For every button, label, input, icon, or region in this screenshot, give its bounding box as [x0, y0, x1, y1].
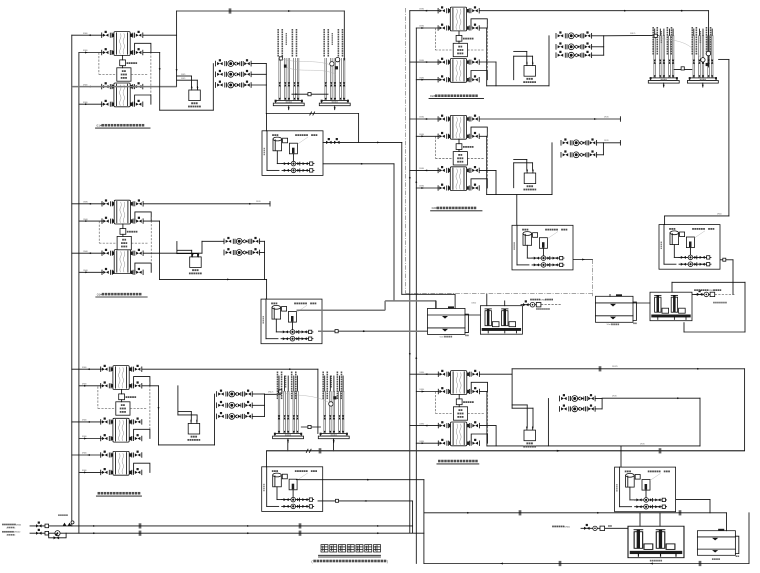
R2 temp sensor link to HX [458, 139, 460, 144]
L3 controller dashed signal lines [98, 408, 116, 410]
CP1 left riser labels [277, 29, 297, 57]
section divider dash-dot vertical [405, 8, 407, 294]
section divider dash-dot horizontal [406, 293, 593, 295]
city inlet caption upper [2, 524, 22, 527]
R1 inlet valve V2 [438, 24, 450, 30]
L3 pump P3 row [217, 412, 253, 419]
R3 outlet fitting F3 [467, 422, 479, 428]
svg-text:DN80: DN80 [83, 270, 88, 272]
TB2 lower outlet long run to tank A [318, 330, 428, 332]
living water tank C [697, 529, 739, 557]
R3 vacuum degasser pressurization tank [523, 427, 536, 448]
svg-text:DN80: DN80 [83, 219, 88, 221]
collector CP3 left (distributor) with risers [648, 35, 679, 87]
R1 outlet bypass bridge 1 [471, 19, 487, 28]
CP1 inter-bar balance line with meter [292, 93, 328, 95]
R1 vacuum degasser pressurization tank [523, 62, 536, 83]
R3 inlet valve V1 [438, 370, 450, 376]
L3 wire row1 from bus [72, 368, 102, 370]
R2 wire row4 from bus [416, 187, 438, 189]
svg-text:DN80: DN80 [419, 8, 424, 10]
wire drop to collector CP1 right [343, 11, 345, 60]
bottom bus lower [424, 563, 749, 565]
L2 outlet fitting F1 [131, 200, 143, 206]
R1 drop into CP3 right collector [708, 11, 710, 67]
R1 pump discharge to CP3 left risers [604, 34, 659, 36]
R2 drop to TB3 [516, 195, 518, 226]
CP3 right riser pressure reducing valves [701, 58, 705, 62]
collector CP1 right (collector) with risers [319, 58, 350, 110]
L2 inter-HX dashed link [150, 217, 152, 263]
bottom supply fitting run [581, 527, 628, 529]
L1 outlet bypass bridge 2 [135, 95, 151, 104]
R3 wire row2 drop [480, 391, 487, 393]
R3 pump discharge run right [602, 397, 700, 399]
L1 controller dashed signal lines [99, 74, 117, 76]
R2 pump P1 row [561, 139, 597, 146]
svg-text:DN80: DN80 [420, 441, 425, 443]
flow arrows on right buses [409, 353, 411, 356]
R2 controller dashed signal lines [435, 157, 453, 159]
L1 pump discharge header [265, 64, 267, 85]
L2 wire row2 from bus [79, 220, 103, 222]
TB5 lower outlet run [318, 500, 413, 502]
L2 inlet valve V4 [102, 268, 114, 274]
drawing subtitle note [312, 559, 388, 563]
TB5 feed from return header [266, 451, 268, 467]
inlet valve set upper [36, 522, 42, 528]
L1 plate heat exchanger HX2 [114, 83, 130, 107]
R3 controller dashed signal lines [436, 413, 454, 415]
L1 outlet fitting F2 [131, 48, 143, 54]
svg-text:DN80: DN80 [83, 50, 88, 52]
L3 wire row4 from bus [79, 438, 101, 440]
R1 outlet fitting F2 [467, 24, 479, 30]
R1 pump P1 row [556, 32, 592, 39]
R2 outlet bypass bridge 2 [471, 179, 487, 188]
L1 pump P3 row [216, 81, 252, 88]
city water inlet text bottom [552, 526, 571, 529]
L3 wire row6 from bus [79, 471, 101, 473]
collector CP3 right (collector) with risers [687, 35, 718, 87]
L3 inlet valve V4 [101, 434, 113, 440]
skid A suction from tank A [465, 314, 480, 316]
CP2 right bar drain to return header [333, 439, 335, 451]
R2 wire row1 extension with end marker [480, 118, 621, 120]
svg-text:DN80: DN80 [419, 134, 424, 136]
L2 pump P1 row [224, 237, 260, 244]
R2 pump P2 row [561, 151, 597, 158]
R3 wire row3 drop [480, 425, 496, 427]
CP2 left riser instrument square [279, 390, 282, 393]
L2 outlet bypass bridge 2 [135, 263, 151, 272]
svg-text:): ) [387, 559, 388, 563]
inlet water meter [55, 531, 60, 536]
R2 vacuum degasser pressurization tank [523, 169, 536, 190]
tank C feed from bus [726, 513, 728, 531]
L3 temp sensor link to HX [121, 389, 123, 394]
R3 outlet bypass bridge 2 [471, 434, 487, 443]
L1 inlet valve V3 [102, 83, 114, 89]
svg-text:DN80: DN80 [419, 186, 424, 188]
L3 outlet bypass bridge 2 [134, 429, 150, 438]
makeup water unit TB2 box [261, 299, 322, 344]
CP3 right bar tap to right main drop [719, 58, 729, 60]
R2 wire row3 drop [480, 169, 496, 171]
svg-text:DN65: DN65 [16, 524, 22, 526]
R1 pump discharge header [603, 36, 605, 55]
L3 expansion tank piping [178, 411, 191, 413]
L3 inlet valve V2 [101, 382, 113, 388]
R3 plate heat exchanger HX1 [451, 371, 467, 395]
R3 wire row3 from bus [410, 425, 439, 427]
R1 plate heat exchanger HX2 [450, 59, 466, 83]
R1 wire row3 from bus [410, 61, 439, 63]
L3 wire row5 from bus [72, 454, 102, 456]
R2 pump suction run [487, 194, 552, 196]
collector CP2 right (collector) with risers [318, 391, 349, 443]
R1 energy metering controller [453, 35, 473, 56]
R1 wire row2 from bus [416, 27, 438, 29]
R3 outlet fitting F1 [467, 370, 479, 376]
city water supply to tank A [521, 301, 561, 307]
TB2 outlet to tank A feed [297, 309, 386, 311]
left return bus 2 [78, 53, 80, 534]
svg-text:DN80: DN80 [419, 117, 424, 119]
CP2 instrument leader curve [282, 392, 331, 403]
R3 outlet fitting F2 [467, 387, 479, 393]
bottom right riser [748, 513, 750, 564]
L3 pump P2 row [217, 401, 253, 408]
TB5 lower drop [412, 501, 414, 533]
R1 wire row1 long run to CP3 [480, 10, 709, 12]
L2 outlet fitting F4 [131, 268, 143, 274]
drawing title [321, 545, 328, 552]
R1 wire row3 drop [480, 61, 496, 63]
collector CP2 left (distributor) with risers [273, 391, 304, 443]
L2 wire row3 to pumps [144, 252, 203, 254]
R3 expansion tank piping [512, 404, 527, 406]
L1 wire row4 from bus [79, 103, 102, 105]
R3 temp sensor link to HX [458, 394, 460, 399]
svg-text:DN100: DN100 [14, 532, 21, 534]
R2 wire row1 from bus [410, 118, 439, 120]
wire top distribution header [177, 10, 345, 12]
R2 expansion tank piping [514, 159, 527, 161]
makeup water unit TB4 box [659, 225, 720, 270]
circulation return to skid B base [684, 331, 745, 333]
svg-text:01#: 01# [97, 124, 102, 128]
L2 expansion tank piping [177, 249, 192, 251]
L1 wire row2 loop down [143, 52, 160, 54]
svg-text:DN50: DN50 [565, 526, 571, 528]
right main drop wire [728, 59, 730, 216]
right return bus 2 [415, 28, 417, 564]
L2 energy metering controller [117, 229, 137, 250]
R2 plate heat exchanger HX1 [450, 115, 466, 139]
TB3 outlet to divider drop [574, 259, 593, 261]
L2 outlet fitting F2 [131, 217, 143, 223]
R1 expansion tank piping [514, 50, 527, 52]
L3 pump suction run [159, 444, 215, 446]
svg-text:DN80: DN80 [83, 33, 88, 35]
TB4 outlet right with meter [721, 259, 734, 261]
svg-text:02#: 02# [432, 206, 437, 210]
R2 pump discharge header [602, 143, 604, 155]
R3 energy metering controller [453, 399, 473, 420]
L3 drop into CP2 right collector [317, 369, 319, 433]
L2 wire row1 from bus [72, 203, 103, 205]
living water tank A [428, 307, 469, 337]
svg-text:DN80: DN80 [83, 102, 88, 104]
CP2 right riser pressure reducing valve [329, 402, 333, 406]
L2 bottom run to TB2 [160, 278, 267, 280]
R2 inlet valve V2 [438, 132, 450, 138]
L3 inlet valve V1 [101, 365, 113, 371]
TB1 outlet lower [323, 163, 394, 165]
makeup water unit TB5 box [262, 467, 323, 512]
L1 wire to CP1 zone [266, 113, 358, 115]
L2 wire row1 extension with end marker [144, 203, 271, 205]
R1 outlet fitting F3 [467, 58, 479, 64]
svg-text:DN80: DN80 [82, 470, 87, 472]
L3 outlet bypass bridge 1 [134, 377, 150, 386]
tank A top feed header [385, 300, 436, 302]
skid B suction from tank B [633, 302, 650, 304]
R1 inlet valve V3 [438, 58, 450, 64]
R1 pump P3 row [556, 51, 592, 58]
L3 inlet valve V6 [101, 468, 113, 474]
R1 wire row1 from bus [410, 10, 439, 12]
pump skid B box [650, 292, 692, 321]
svg-text:DN125: DN125 [612, 366, 618, 368]
L1 pump P1 row [216, 60, 252, 67]
L1 outlet fitting F1 [131, 31, 143, 37]
L1 pump P2 row [216, 70, 252, 77]
CP1 right riser pressure reducing valves [330, 62, 334, 66]
L2 inlet valve V2 [102, 217, 114, 223]
CP1 left riser instrument square [279, 57, 282, 60]
L3 inter-HX dashed link [149, 382, 151, 430]
R3 pump P2 row [560, 405, 596, 412]
R3 top long run to right main [512, 368, 745, 370]
makeup water unit TB6 box [615, 467, 676, 512]
TB6 outlet to bottom right riser [676, 498, 710, 500]
R1 wire row2 drop [480, 27, 487, 29]
R1 inter-HX dashed link [486, 24, 488, 71]
L3 outlet fitting F1 [130, 365, 142, 371]
right drop to circulation return [744, 282, 746, 332]
L1 expansion tank piping [177, 75, 192, 77]
L3 inlet valve V5 [101, 451, 113, 457]
L2 wire row4 from bus [79, 271, 103, 273]
L1 riser to top header [176, 11, 178, 87]
L1 inter-HX dashed link [150, 49, 152, 96]
L1 wire row2 from bus [79, 52, 102, 54]
tank A feed stub right [454, 294, 456, 308]
svg-text:DN70: DN70 [612, 396, 617, 398]
CP3 right riser labels [692, 27, 712, 55]
L1 wire row1 extension to riser [143, 34, 176, 36]
L3 vacuum degasser pressurization tank [187, 420, 200, 441]
R1 temp sensor link to HX [458, 31, 460, 36]
left supply bus 1 [71, 35, 73, 526]
R2 inlet valve V3 [438, 166, 450, 172]
svg-text:DN50: DN50 [472, 303, 477, 305]
svg-text:DN70: DN70 [604, 140, 609, 142]
R1 caption [430, 94, 478, 98]
tank A second feed from TB2 header [435, 301, 437, 309]
L2 inlet valve V3 [102, 249, 114, 255]
R2 wire row3 from bus [410, 169, 439, 171]
L3 outlet fitting F3 [130, 418, 142, 424]
L3 outlet bypass bridge 3 [134, 463, 150, 472]
svg-text:DN80: DN80 [419, 26, 424, 28]
L3 wire row3 from bus [72, 421, 102, 423]
R3 pump suction drop [547, 399, 549, 446]
makeup water unit TB1 box [262, 131, 323, 176]
pump skid A box [480, 306, 522, 335]
CP3 riser pipe extensions [654, 29, 656, 35]
TB4 outlet drop [732, 260, 734, 295]
living water tank B [596, 295, 637, 325]
L1 caption [97, 124, 145, 128]
L2 plate heat exchanger HX1 [114, 200, 130, 224]
supply B connector to skid B [692, 293, 697, 295]
svg-text:DN25: DN25 [181, 78, 185, 80]
svg-text:DN25: DN25 [181, 74, 185, 76]
inlet bypass loop [49, 533, 66, 538]
R1 controller dashed signal lines [435, 49, 453, 51]
R3 drop into TB6 [620, 446, 622, 467]
R3 bottom run [487, 445, 700, 447]
svg-text:DN50: DN50 [717, 213, 722, 215]
R2 energy metering controller [453, 144, 473, 165]
L2 vacuum degasser pressurization tank [189, 253, 202, 274]
svg-text:DN70: DN70 [640, 443, 645, 445]
svg-text:DN80: DN80 [82, 384, 87, 386]
L2 inlet valve V1 [102, 200, 114, 206]
L3 pump discharge to CP2 left risers [264, 393, 266, 395]
TB5 drop right [423, 480, 425, 564]
CP1 right riser labels [323, 29, 343, 57]
R3 row1 riser to top run [480, 373, 512, 375]
R3 inlet valve V2 [438, 387, 450, 393]
svg-text:DN80: DN80 [82, 420, 87, 422]
L3 wire row2 from bus [79, 385, 101, 387]
L3 pump P1 row [217, 390, 253, 397]
R1 inlet valve V4 [438, 76, 450, 82]
backflow preventer pair [63, 523, 72, 526]
CP1 left riser sensor [284, 65, 286, 68]
L3 energy metering controller [116, 394, 136, 415]
R3 outlet fitting F4 [467, 439, 479, 445]
city inlet caption lower [2, 531, 21, 534]
divider dash-dot horizontal lower stub [406, 300, 430, 302]
L2 wire row3 from bus [72, 252, 103, 254]
R2 pump discharge with end marker [603, 142, 620, 144]
L1 vacuum degasser pressurization tank [188, 86, 201, 107]
R2 wire row2 from bus [416, 135, 438, 137]
CP2 left bar drain to return header [287, 439, 289, 451]
CP3 instrument leader curves [657, 37, 702, 60]
L1 temp sensor link to HX [122, 55, 124, 60]
L2 outlet fitting F3 [131, 249, 143, 255]
L2 temp sensor link to HX [122, 224, 124, 229]
CP2 left riser labels [277, 372, 297, 400]
main return header (heavy) across bottom [267, 450, 745, 452]
R3 wire row1 from bus [410, 373, 439, 375]
L3 outlet fitting F2 [130, 382, 142, 388]
right supply bus 1 [409, 11, 411, 533]
svg-text:DN80: DN80 [419, 168, 424, 170]
L2 wire row2 drop [144, 220, 160, 222]
CP2 right riser labels [322, 372, 342, 400]
L2 caption [97, 292, 142, 296]
svg-text:DN125: DN125 [268, 392, 273, 394]
svg-text:DN125: DN125 [630, 33, 635, 35]
L1 outlet bypass bridge 1 [135, 43, 151, 52]
L1 discharge drop to makeup line [265, 85, 267, 114]
bottom distribution bus [424, 512, 727, 514]
svg-text:DN80: DN80 [420, 423, 425, 425]
tank C caption [712, 558, 720, 560]
svg-text:DN80: DN80 [419, 77, 424, 79]
CP3 left riser instrument square [654, 34, 657, 37]
L3 inlet valve V3 [101, 418, 113, 424]
makeup water unit TB3 box [512, 225, 573, 270]
R3 inlet valve V3 [438, 422, 450, 428]
city water supply to tank B [695, 290, 735, 296]
L2 controller dashed signal lines [99, 242, 117, 244]
svg-text:DN80: DN80 [82, 453, 87, 455]
TB1 outlet drop center [401, 142, 403, 294]
svg-text:DN80: DN80 [420, 389, 425, 391]
CP3 inter-bar balance line with meter [674, 68, 692, 70]
TB1 feed from CP1 zone [266, 114, 268, 131]
R2 caption [432, 206, 477, 210]
L3 outlet fitting F4 [130, 434, 142, 440]
R3 wire row4 from bus [416, 442, 439, 444]
CP3 left riser labels [652, 27, 672, 55]
R2 outlet fitting F3 [467, 166, 479, 172]
L3 pump discharge header [264, 394, 266, 416]
skid B discharge run to right drop [672, 281, 745, 283]
inlet valve set lower [36, 529, 42, 535]
L3 wire row2 loop down [142, 385, 158, 387]
R3 pump discharge header [601, 399, 603, 409]
svg-text:01#: 01# [97, 292, 102, 296]
L3 plate heat exchanger HX2 [113, 418, 129, 442]
R2 outlet fitting F2 [467, 132, 479, 138]
svg-text:DN80: DN80 [83, 251, 88, 253]
svg-text:DN80: DN80 [83, 202, 88, 204]
R1 pump suction run [487, 85, 549, 87]
svg-text:DN80: DN80 [82, 436, 87, 438]
L3 wire row1 extension to CP2 [142, 368, 318, 370]
R1 outlet bypass bridge 2 [471, 71, 487, 80]
feed run into TB4 [665, 215, 729, 217]
svg-text:DN80: DN80 [82, 367, 87, 369]
svg-text:02#: 02# [430, 94, 435, 98]
svg-text:DN80: DN80 [419, 60, 424, 62]
skid C discharge risers [639, 513, 641, 526]
L3 outlet fitting F6 [130, 468, 142, 474]
R2 wire row2 drop [480, 135, 487, 137]
skid A discharge risers [486, 294, 488, 305]
L3 plate heat exchanger HX1 [113, 366, 129, 390]
TB1 lower drop center [393, 164, 395, 301]
